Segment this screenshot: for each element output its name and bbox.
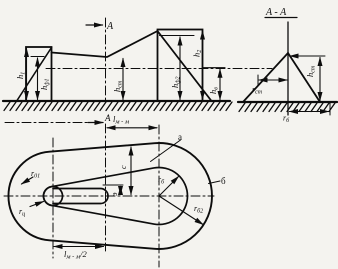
svg-text:с: с [119, 165, 128, 169]
svg-text:э: э [110, 192, 119, 196]
svg-text:б: б [221, 176, 226, 186]
svg-text:A: A [104, 113, 111, 123]
svg-text:A - A: A - A [265, 7, 287, 18]
svg-text:а: а [178, 132, 182, 142]
svg-text:A: A [106, 21, 114, 32]
